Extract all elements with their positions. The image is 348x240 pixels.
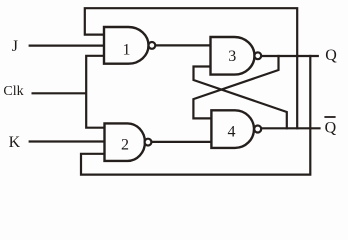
wire: Q-bar output line [261,127,319,129]
svg-text:3: 3 [228,48,236,65]
overbar of Q-bar label [324,116,335,118]
nand gate U1 [104,27,155,64]
gate 1 output bubble [149,42,156,49]
svg-text:Q: Q [325,47,337,64]
wire: gate 2 output to gate 4 input [151,141,211,143]
svg-text:Clk: Clk [3,84,23,99]
gate 4 body [211,110,254,148]
svg-text:J: J [12,38,18,55]
svg-text:2: 2 [121,137,129,154]
wire: top feedback rail from Q-bar down to gate 1 input [85,8,297,128]
gate 4 output bubble [254,126,261,133]
gate 3 body [211,37,255,75]
svg-text:K: K [9,134,21,151]
svg-text:Q: Q [325,120,337,137]
gate 2 output bubble [145,139,152,146]
wire: gate 1 output to gate 3 input [155,44,210,46]
wire: Clk lead and branch to gate 1 and gate 2 [33,56,105,128]
gate 1 body [104,27,148,64]
wire: J input lead [30,44,104,46]
nand gate U4 [211,110,261,148]
wire: cross-coupling from Q line to gate 4 upper input [193,56,278,118]
wire: Q output line [261,55,318,57]
wire: bottom feedback rail from Q down to gate 2 input [81,56,310,175]
svg-text:4: 4 [228,124,236,141]
nand gate U2 [105,123,152,160]
wire: cross-coupling from gate 3 lower input to Q-bar line [194,67,287,129]
gate 3 output bubble [254,52,261,59]
gate 2 body [105,123,145,160]
wire: K input lead [30,140,105,142]
svg-text:1: 1 [123,42,131,59]
nand gate U3 [211,37,262,75]
